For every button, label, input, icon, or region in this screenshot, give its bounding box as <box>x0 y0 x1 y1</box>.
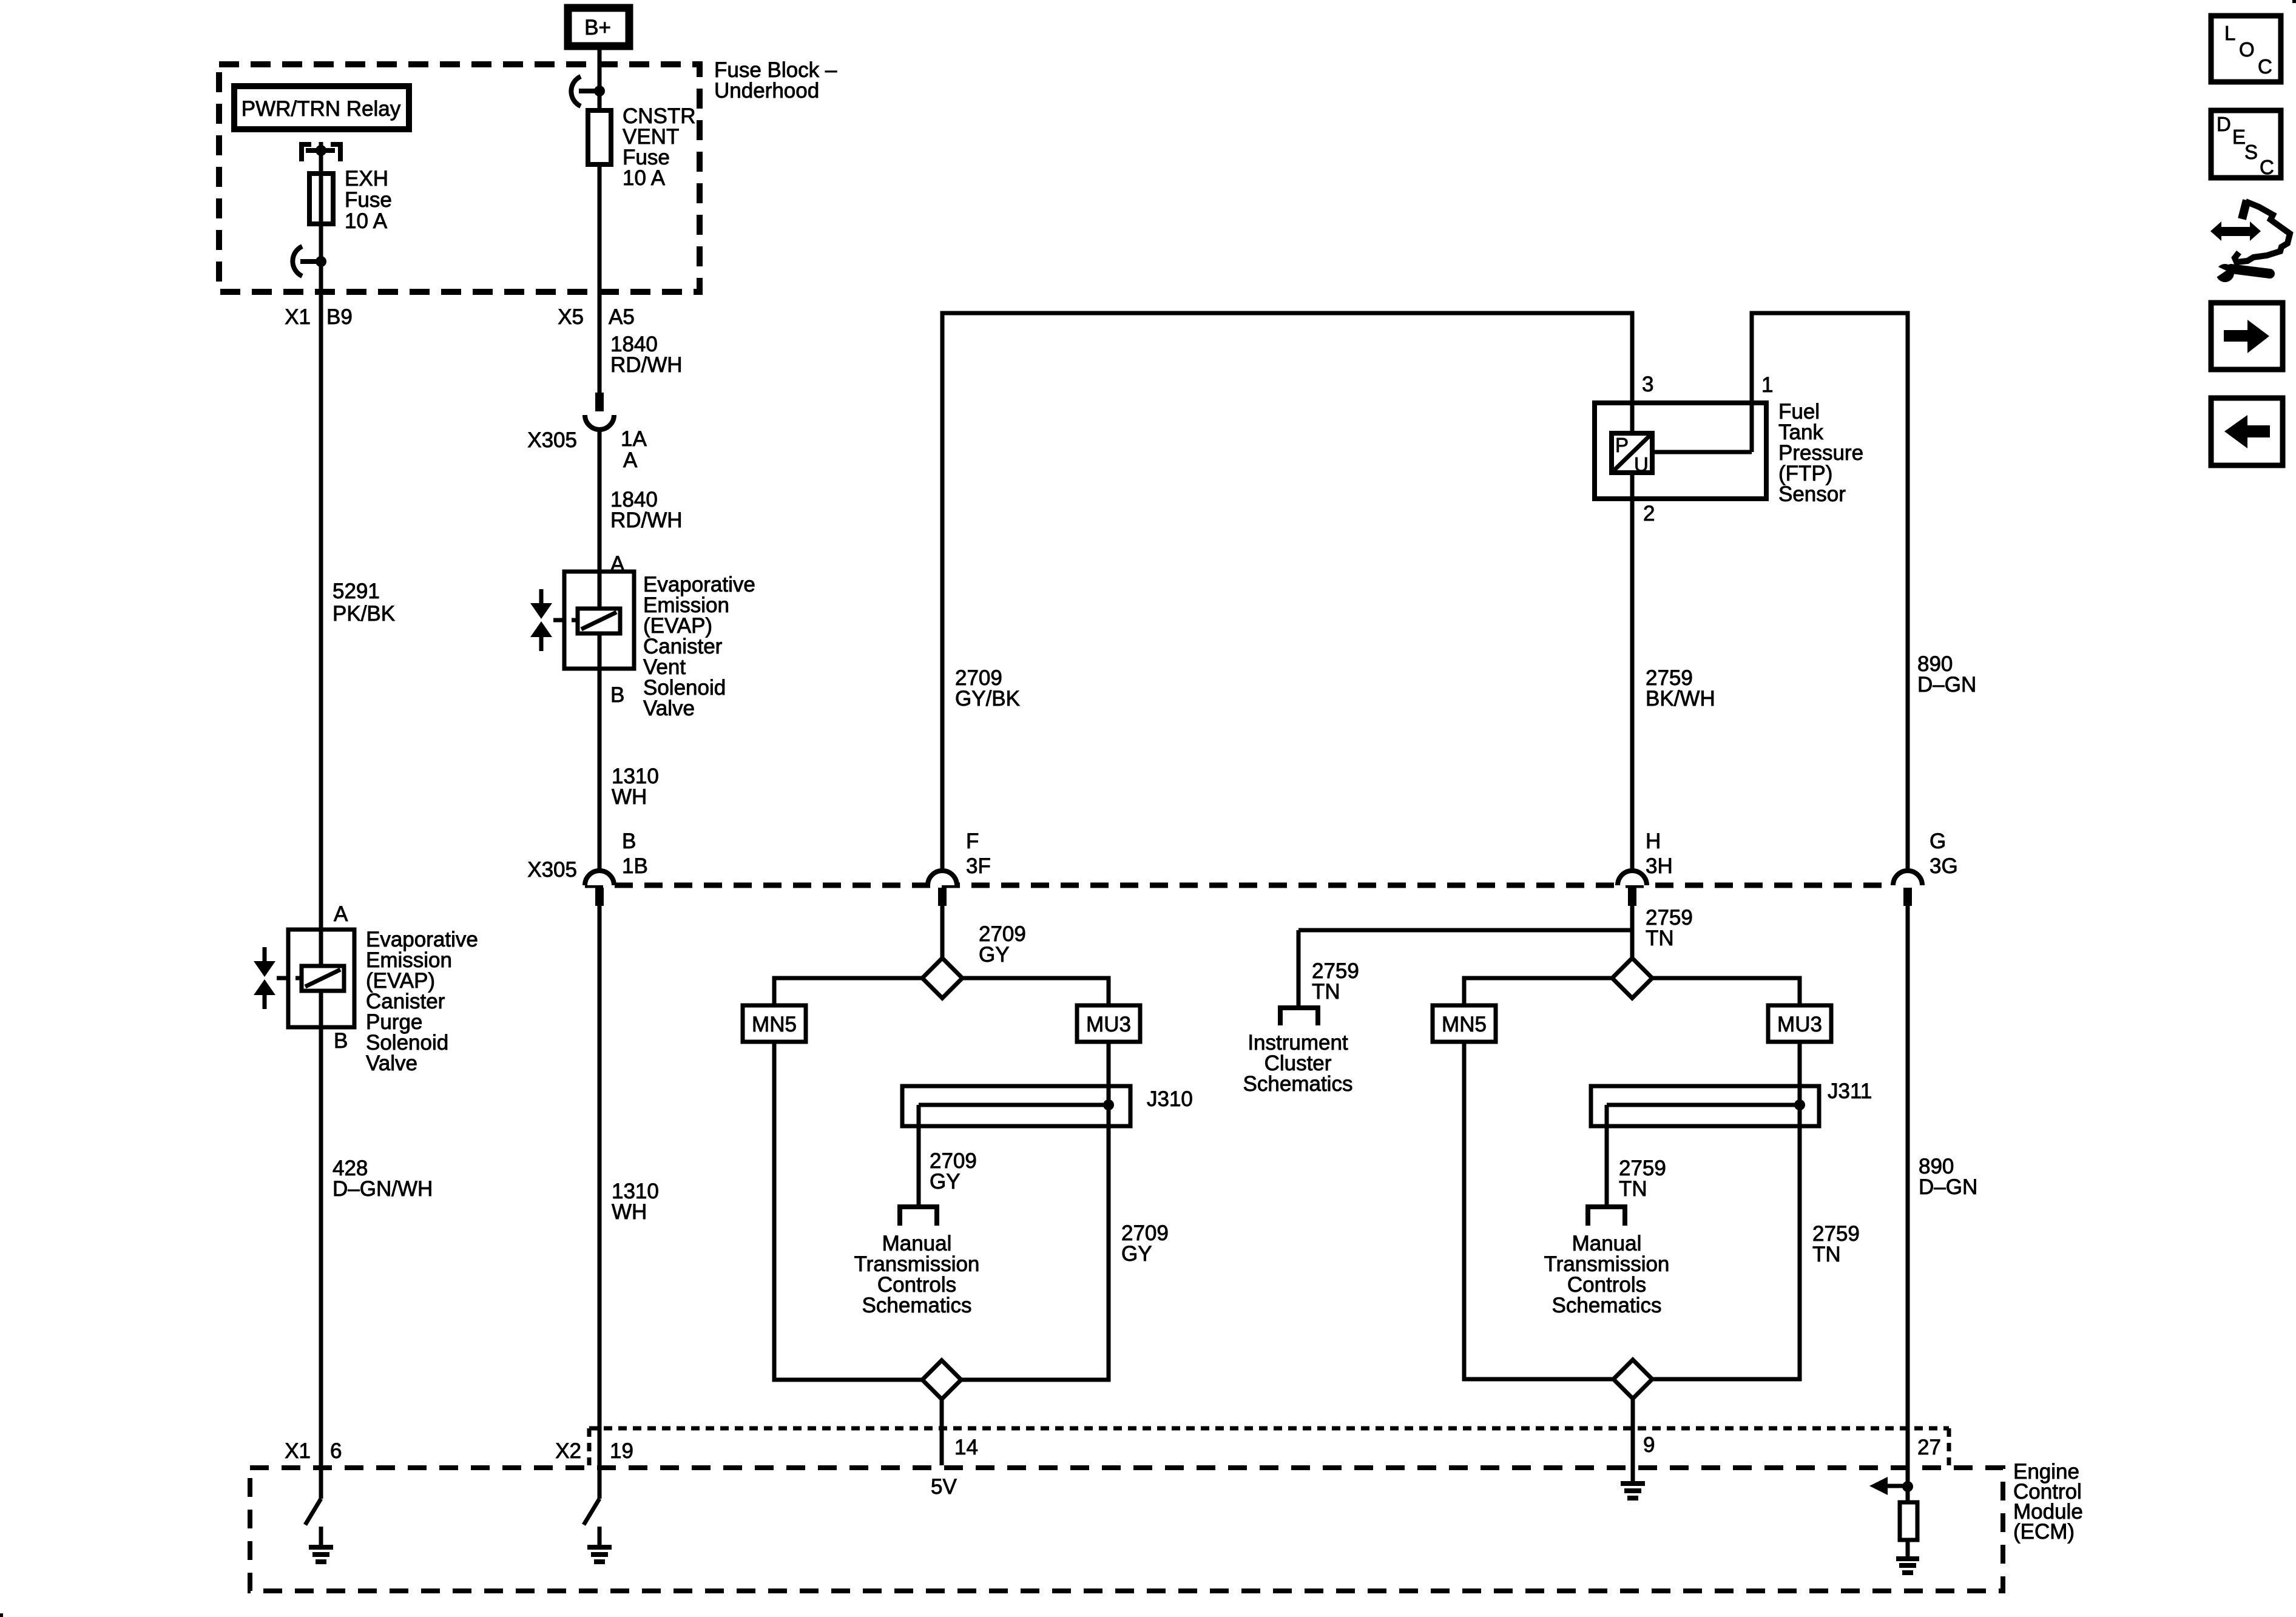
svg-text:GY: GY <box>979 943 1010 967</box>
wire relay to EXH fuse <box>319 150 323 262</box>
svg-text:MN5: MN5 <box>1442 1013 1487 1036</box>
svg-text:L: L <box>2224 22 2235 44</box>
wire F to splice diamond, 2709 GY <box>940 906 945 959</box>
svg-text:2: 2 <box>1643 502 1655 525</box>
svg-text:WH: WH <box>612 785 647 809</box>
svg-text:X305: X305 <box>527 428 577 452</box>
ground (ECM pin27) <box>1906 1540 1910 1557</box>
svg-text:J311: J311 <box>1828 1079 1872 1103</box>
svg-text:10 A: 10 A <box>623 166 666 190</box>
svg-text:1: 1 <box>1761 373 1773 397</box>
PWR/TRN Relay box <box>234 86 409 129</box>
svg-text:1A: 1A <box>621 427 647 451</box>
svg-text:F: F <box>966 829 979 853</box>
B+ power symbol <box>568 8 629 46</box>
svg-text:GY/BK: GY/BK <box>955 687 1020 711</box>
svg-text:BK/WH: BK/WH <box>1646 687 1715 711</box>
svg-text:D: D <box>2217 113 2231 135</box>
svg-text:A: A <box>334 902 348 926</box>
page corner marks <box>0 1613 3 1617</box>
fuse EXH 10A <box>309 174 333 224</box>
wire 1310 WH to ECM X2-19 <box>598 906 602 1499</box>
svg-text:PWR/TRN Relay: PWR/TRN Relay <box>241 97 401 121</box>
svg-text:D–GN: D–GN <box>1919 1175 1977 1199</box>
svg-text:14: 14 <box>954 1436 978 1459</box>
svg-text:A5: A5 <box>609 305 635 329</box>
svg-text:TN: TN <box>1646 927 1674 950</box>
svg-text:27: 27 <box>1917 1436 1941 1459</box>
relay output clip terminal <box>302 144 311 161</box>
wire diamond to ECM pin 14 <box>940 1399 944 1465</box>
splice pack J311 <box>1591 1086 1819 1126</box>
icon LOC box <box>2211 16 2281 82</box>
svg-text:19: 19 <box>610 1439 633 1463</box>
svg-text:Schematics: Schematics <box>1243 1072 1353 1096</box>
svg-text:RD/WH: RD/WH <box>610 353 683 377</box>
wires diamond to MN5/MU3 left <box>774 978 922 1005</box>
ECM dashed box <box>250 1468 2003 1591</box>
svg-text:Fuse: Fuse <box>345 188 392 212</box>
EVAP canister vent solenoid valve <box>564 572 634 669</box>
wire 890 D-GN from G to ECM pin 27 <box>1906 906 1910 1502</box>
ECM internal resistor <box>1900 1502 1917 1540</box>
connector arc G <box>1893 871 1922 885</box>
svg-text:X2: X2 <box>555 1439 581 1463</box>
wire H to splice diamond, 2759 TN <box>1630 906 1635 959</box>
relay contact switch symbol (EXH branch) <box>292 246 302 276</box>
option box MU3 left <box>1077 1005 1140 1042</box>
svg-text:GY: GY <box>930 1170 961 1193</box>
svg-text:B: B <box>622 829 636 853</box>
connector X305 pin 1A <box>595 393 604 411</box>
svg-text:S: S <box>2244 141 2258 163</box>
svg-text:6: 6 <box>330 1439 342 1463</box>
svg-text:9: 9 <box>1643 1433 1655 1457</box>
svg-text:P: P <box>1615 434 1629 456</box>
ECM internal switch blade pin6 <box>305 1499 321 1525</box>
svg-text:3G: 3G <box>1930 854 1958 878</box>
svg-text:X5: X5 <box>558 305 584 329</box>
fuse CNSTR VENT 10A <box>588 110 611 164</box>
ECM internal signal arrow <box>1886 1484 1908 1488</box>
fuse block underhood dashed box <box>219 64 700 292</box>
X305 inline connector dashed line <box>585 883 1893 888</box>
splice diamond upper left <box>922 958 962 998</box>
vent valve symbol <box>539 589 544 605</box>
svg-text:A: A <box>623 448 638 472</box>
svg-text:TN: TN <box>1312 980 1340 1004</box>
svg-text:MU3: MU3 <box>1777 1013 1822 1036</box>
fuel tank pressure FTP sensor <box>1595 403 1766 499</box>
svg-text:(ECM): (ECM) <box>2013 1520 2075 1544</box>
ECM internal switch blade pin19 <box>584 1499 599 1525</box>
svg-text:C: C <box>2260 156 2274 178</box>
svg-text:X1: X1 <box>285 305 311 329</box>
connector arc B <box>585 871 614 885</box>
svg-text:Sensor: Sensor <box>1778 482 1846 506</box>
svg-text:PK/BK: PK/BK <box>333 602 395 626</box>
wire X305 to vent valve, 1840 RD/WH <box>598 430 602 572</box>
ground (ECM pin19) <box>598 1527 602 1546</box>
off-page bracket (manual trans left) <box>900 1207 937 1226</box>
icon left arrow box <box>2211 398 2283 465</box>
svg-text:TN: TN <box>1812 1243 1841 1266</box>
splice diamond upper right <box>1612 958 1652 998</box>
splice diamond lower right <box>1613 1360 1652 1399</box>
icon DESC box <box>2211 110 2281 178</box>
svg-text:3F: 3F <box>966 854 991 878</box>
svg-text:5291: 5291 <box>333 579 380 603</box>
ground (ECM pin6) <box>319 1527 323 1546</box>
wires MN5/MU3 left to lower diamond <box>774 1042 922 1380</box>
svg-text:D–GN: D–GN <box>1917 673 1976 697</box>
branch wire to instrument cluster <box>1298 928 1632 933</box>
svg-text:C: C <box>2258 55 2272 78</box>
svg-text:3H: 3H <box>1646 854 1673 878</box>
wires diamond to MN5/MU3 right <box>1464 978 1612 1005</box>
svg-text:5V: 5V <box>931 1475 957 1499</box>
wire diamond to ECM pin 9 ground <box>1631 1399 1635 1482</box>
svg-text:U: U <box>1634 453 1649 476</box>
svg-text:WH: WH <box>612 1200 647 1224</box>
wire fuse to X305 connector, 1840 RD/WH <box>598 164 602 393</box>
off-page bracket (manual trans right) <box>1588 1207 1625 1226</box>
svg-text:TN: TN <box>1619 1177 1647 1201</box>
ground (ECM pin9) <box>1621 1481 1645 1486</box>
svg-text:RD/WH: RD/WH <box>610 508 683 532</box>
svg-text:D–GN/WH: D–GN/WH <box>333 1177 433 1201</box>
splice pack J310 <box>902 1086 1130 1126</box>
svg-text:GY: GY <box>1121 1242 1152 1266</box>
wire vent valve to X305 B, 1310 WH <box>598 669 602 872</box>
EVAP canister purge solenoid valve <box>288 930 354 1027</box>
svg-text:O: O <box>2239 38 2255 61</box>
svg-text:B+: B+ <box>584 16 611 39</box>
option box MU3 right <box>1768 1005 1831 1042</box>
svg-text:B: B <box>334 1029 348 1053</box>
wire FTP pin2 down 2759 BK/WH <box>1630 475 1635 872</box>
svg-text:Schematics: Schematics <box>1552 1294 1662 1317</box>
svg-text:H: H <box>1646 829 1661 853</box>
off-page bracket (instrument cluster) <box>1280 1008 1318 1025</box>
icon right arrow box <box>2211 303 2283 370</box>
purge valve symbol <box>263 947 267 963</box>
svg-text:MU3: MU3 <box>1086 1013 1131 1036</box>
option box MN5 left <box>743 1005 806 1042</box>
top bus wire 2709 GY/BK (F to FTP pin3) <box>942 313 1632 872</box>
svg-text:E: E <box>2232 126 2246 148</box>
svg-text:3: 3 <box>1642 373 1653 396</box>
relay contact switch symbol (CNSTR branch) <box>571 76 581 106</box>
connector arc H <box>1618 871 1647 885</box>
svg-text:X1: X1 <box>285 1439 311 1463</box>
svg-text:Underhood: Underhood <box>714 79 819 103</box>
option box MN5 right <box>1433 1005 1496 1042</box>
ECM pin row dotted line <box>589 1426 1949 1431</box>
svg-text:10 A: 10 A <box>345 209 388 233</box>
svg-text:J310: J310 <box>1147 1087 1193 1111</box>
wires MN5/MU3 right to lower diamond <box>1464 1042 1613 1379</box>
svg-text:Schematics: Schematics <box>862 1294 972 1317</box>
svg-text:B9: B9 <box>326 305 353 329</box>
svg-text:MN5: MN5 <box>752 1013 797 1036</box>
wire B+ to CNSTR VENT fuse <box>598 46 602 110</box>
svg-text:B: B <box>610 683 624 707</box>
svg-text:X305: X305 <box>527 858 577 882</box>
top bus wire 890 D-GN (FTP pin1 to G) <box>1752 313 1908 872</box>
svg-text:EXH: EXH <box>345 167 388 191</box>
connector arc F <box>928 871 957 885</box>
wire X1-B9 down left column 5291 PK/BK <box>319 262 323 930</box>
splice diamond lower left <box>922 1360 961 1399</box>
svg-text:Valve: Valve <box>643 697 695 720</box>
svg-text:Valve: Valve <box>366 1052 417 1075</box>
svg-text:1B: 1B <box>622 854 648 878</box>
wire 428 D-GN/WH down to ECM <box>319 1027 323 1499</box>
svg-text:G: G <box>1930 829 1946 853</box>
icon double arrow with wrench <box>2210 221 2261 241</box>
